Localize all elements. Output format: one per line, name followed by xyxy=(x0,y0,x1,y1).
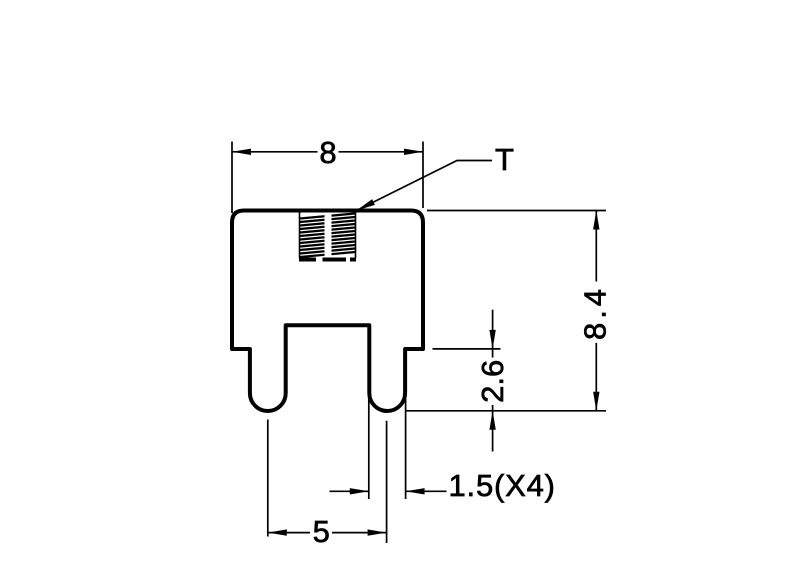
svg-text:2.6: 2.6 xyxy=(475,360,510,403)
leader line to T xyxy=(357,161,493,211)
dimension 8 (top width) xyxy=(232,142,423,214)
thread hatch T xyxy=(299,213,356,260)
dimension 2.6 (leg height) xyxy=(433,310,501,452)
dimension 5 (leg pitch) xyxy=(268,420,387,544)
svg-text:8: 8 xyxy=(319,135,336,170)
body outline xyxy=(232,211,423,412)
svg-text:5: 5 xyxy=(313,514,330,549)
svg-text:1.5(X4): 1.5(X4) xyxy=(449,468,556,503)
dimension 8.4 (overall height) xyxy=(405,211,606,411)
dimension 1.5(X4) (leg width) xyxy=(330,396,447,499)
svg-text:T: T xyxy=(495,142,514,177)
svg-text:8.4: 8.4 xyxy=(578,285,613,340)
